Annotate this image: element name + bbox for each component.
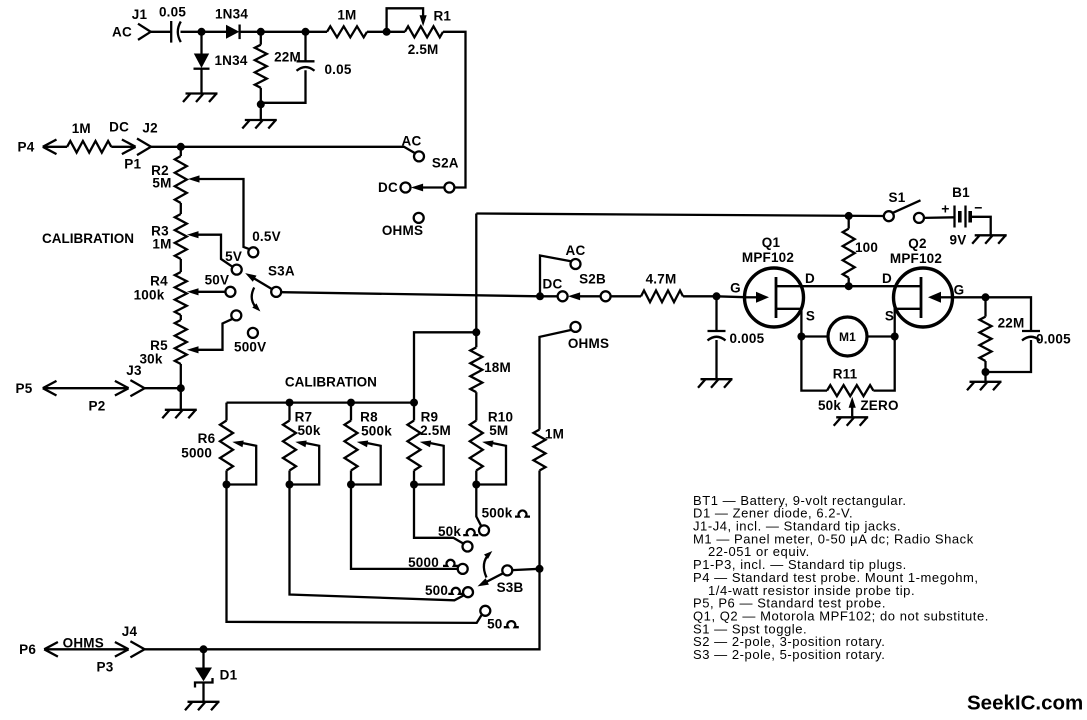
wire (475, 392, 477, 420)
wire (351, 485, 458, 569)
wire (44, 648, 127, 650)
wire (715, 340, 717, 379)
svg-text:P2: P2 (89, 399, 106, 414)
plug P2 (89, 381, 129, 414)
svg-text:D1: D1 (220, 668, 238, 683)
svg-text:R6: R6 (198, 431, 216, 446)
svg-text:G: G (730, 281, 741, 296)
wire (717, 295, 745, 298)
svg-text:9V: 9V (950, 233, 967, 248)
switch S3B 50k contact (438, 524, 478, 552)
wire (200, 69, 202, 94)
svg-text:SeekIC.com: SeekIC.com (967, 692, 1083, 715)
switch S3A 5V contact (225, 249, 242, 275)
resistor R4 100k (134, 272, 187, 315)
ground (185, 702, 220, 711)
wire (151, 31, 172, 33)
node (472, 481, 480, 489)
svg-text:2.5M: 2.5M (408, 42, 439, 57)
svg-text:P6: P6 (19, 642, 36, 657)
node (410, 481, 418, 489)
pot tap R8 (351, 441, 381, 485)
label G Q2 (954, 282, 965, 297)
wire (538, 471, 540, 569)
wire (801, 337, 827, 391)
wire bus (227, 401, 415, 403)
switch S2B OHMS contact (540, 322, 610, 430)
wire (414, 485, 464, 544)
meter M1 (801, 317, 894, 356)
svg-text:D: D (805, 271, 815, 286)
wire (180, 315, 182, 320)
node (797, 333, 805, 341)
label CALIBRATION 2 (285, 374, 377, 389)
svg-text:50k: 50k (438, 524, 461, 539)
switch S2A pole (411, 183, 455, 193)
switch S3A 50V contact (205, 273, 236, 297)
svg-text:P1: P1 (124, 157, 141, 172)
svg-text:100: 100 (855, 240, 878, 255)
wire (240, 31, 261, 33)
svg-text:M1: M1 (839, 330, 856, 344)
svg-text:R8: R8 (360, 409, 378, 424)
wire (261, 70, 306, 103)
wire (475, 214, 477, 348)
resistor 1M probe (67, 121, 111, 153)
svg-text:OHMS: OHMS (568, 336, 609, 351)
ground (967, 382, 1002, 391)
svg-text:50k: 50k (297, 423, 320, 438)
svg-text:+: + (941, 201, 949, 217)
label S2A (432, 156, 459, 171)
svg-text:S3A: S3A (268, 264, 295, 279)
svg-text:1N34: 1N34 (215, 6, 248, 21)
svg-text:S1: S1 (889, 190, 906, 205)
svg-text:0.05: 0.05 (159, 4, 186, 19)
probe P5 (16, 381, 127, 396)
potentiometer R11 50k (818, 367, 873, 413)
svg-text:500V: 500V (234, 340, 266, 355)
svg-text:5000: 5000 (181, 445, 212, 460)
svg-text:R11: R11 (833, 367, 858, 382)
plug P3 (97, 642, 129, 675)
wire (180, 388, 182, 410)
pot tap R3 (187, 231, 233, 267)
resistor R3 1M (151, 214, 187, 259)
svg-text:J1: J1 (132, 7, 148, 22)
svg-text:5M: 5M (152, 176, 171, 191)
node (536, 565, 544, 573)
pot tap R7 (290, 441, 320, 485)
plug P1 (109, 120, 141, 172)
watermark SeekIC.com (967, 692, 1083, 715)
resistor 22M gate (980, 297, 1025, 372)
wire (304, 32, 306, 62)
wire (145, 387, 181, 389)
switch S3A 500V contact (231, 310, 241, 320)
svg-text:0.5V: 0.5V (252, 229, 281, 244)
svg-text:AC: AC (112, 24, 132, 39)
svg-text:5M: 5M (489, 423, 508, 438)
rheostat R7 50k (283, 399, 321, 485)
rotation arrow S3A (252, 288, 261, 312)
node (713, 292, 721, 300)
svg-text:MPF102: MPF102 (742, 250, 794, 265)
pot tap R11 ZERO (849, 397, 899, 418)
pot tap R4 (187, 288, 225, 295)
rotation arrow S3B (484, 551, 492, 578)
svg-text:CALIBRATION: CALIBRATION (285, 374, 377, 389)
wire (227, 485, 482, 623)
jack J3 (126, 363, 144, 396)
wire (180, 259, 182, 272)
label G Q1 (730, 281, 741, 296)
switch S3B pole (478, 565, 540, 595)
jack J4 (122, 624, 145, 657)
node (347, 481, 355, 489)
wire (151, 146, 181, 148)
svg-text:1N34: 1N34 (214, 53, 247, 68)
svg-text:S: S (806, 308, 815, 323)
ground (972, 235, 1007, 244)
node AC input label (112, 24, 132, 39)
svg-text:500k: 500k (482, 505, 513, 520)
svg-text:22M: 22M (998, 316, 1025, 331)
transistor Q2 MPF102 (890, 236, 953, 327)
resistor 1M (327, 7, 367, 37)
jack J2 (137, 120, 158, 155)
node (200, 645, 208, 653)
probe P6 (19, 636, 104, 657)
wire (476, 214, 884, 217)
svg-text:OHMS: OHMS (382, 223, 423, 238)
node (982, 293, 990, 301)
pot tap R10 (476, 441, 506, 485)
svg-text:S: S (885, 308, 894, 323)
capacitor 0.05 filter (297, 61, 352, 77)
svg-text:S3B: S3B (497, 580, 524, 595)
node (257, 28, 265, 36)
svg-text:Q1: Q1 (762, 235, 781, 250)
wire (261, 31, 306, 33)
diode 1N34 series (215, 6, 248, 39)
svg-text:4.7M: 4.7M (646, 271, 677, 286)
capacitor 0.005 right (986, 331, 1072, 372)
svg-text:S2B: S2B (579, 271, 606, 286)
wire (611, 295, 641, 297)
svg-text:J2: J2 (142, 120, 157, 135)
pot tap R5 (187, 319, 233, 354)
switch S2A OHMS contact (382, 213, 424, 238)
svg-text:DC: DC (378, 180, 398, 195)
node (845, 282, 853, 290)
svg-text:5000: 5000 (408, 555, 439, 570)
switch S3A 0.5V contact (248, 229, 280, 257)
node (257, 100, 265, 108)
parts list notes (693, 493, 989, 662)
capacitor 0.05 input (159, 4, 186, 42)
wire Q2 source (895, 309, 921, 337)
svg-text:CALIBRATION: CALIBRATION (42, 231, 134, 246)
wire (953, 296, 986, 298)
diode 1N34 shunt (194, 53, 248, 69)
switch S3B 500k contact (479, 505, 530, 535)
wire (924, 216, 955, 219)
wire (181, 31, 202, 33)
node (982, 368, 990, 376)
svg-text:1M: 1M (72, 121, 91, 136)
node (845, 212, 853, 220)
svg-text:500: 500 (425, 583, 448, 598)
switch S3B 5000 contact (408, 555, 468, 574)
node (472, 328, 480, 336)
rheostat R8 500k (345, 399, 393, 485)
node (177, 384, 185, 392)
rheostat R10 5M (470, 409, 513, 484)
wire (986, 297, 1032, 331)
ground (183, 94, 218, 103)
node (177, 143, 185, 151)
svg-text:0.005: 0.005 (1036, 331, 1071, 346)
potentiometer R1 2.5M (387, 8, 452, 57)
wire (145, 569, 540, 650)
svg-text:Q2: Q2 (908, 236, 926, 251)
zener diode D1 (195, 649, 238, 702)
switch S2A AC contact (402, 134, 424, 162)
svg-text:R4: R4 (150, 274, 168, 289)
pot tap R2 (188, 175, 250, 249)
svg-text:500k: 500k (361, 424, 392, 439)
label D Q1 (805, 271, 815, 286)
wire (260, 104, 262, 120)
svg-text:100k: 100k (134, 288, 165, 303)
svg-text:DC: DC (543, 277, 563, 292)
ground (834, 417, 869, 426)
wire (180, 147, 182, 156)
probe P4 (18, 140, 68, 155)
resistor R5 30k (139, 320, 186, 367)
svg-text:P4: P4 (18, 140, 35, 155)
wire (181, 147, 415, 154)
svg-text:18M: 18M (484, 360, 511, 375)
wire (306, 31, 328, 33)
svg-text:2.5M: 2.5M (420, 423, 451, 438)
pot tap R9 (414, 441, 444, 485)
resistor 4.7M (641, 271, 683, 302)
pot tap R6 (227, 441, 257, 485)
resistor 1M ohms (534, 427, 565, 471)
label S Q1 (806, 308, 815, 323)
svg-text:J4: J4 (122, 624, 138, 639)
node (891, 333, 899, 341)
wire (414, 332, 476, 402)
ground (162, 410, 197, 419)
switch S2B AC contact (540, 243, 585, 296)
wire (476, 485, 481, 527)
resistor 22M (255, 45, 301, 88)
node (198, 28, 206, 36)
svg-text:0.05: 0.05 (324, 62, 351, 77)
wire (290, 485, 465, 601)
resistor 100 (843, 216, 878, 286)
svg-text:1M: 1M (545, 427, 564, 442)
svg-text:1M: 1M (152, 237, 171, 252)
svg-text:R1: R1 (433, 8, 451, 23)
wire (540, 295, 558, 297)
svg-text:G: G (954, 282, 965, 297)
svg-text:AC: AC (402, 134, 422, 149)
switch S3B 500 contact (425, 583, 473, 598)
wire (200, 32, 202, 54)
svg-text:5V: 5V (225, 249, 242, 264)
svg-text:50k: 50k (818, 398, 841, 413)
label D Q2 (882, 271, 892, 286)
svg-text:50: 50 (487, 617, 502, 632)
wire (180, 364, 182, 388)
switch S3A spare contact (234, 328, 266, 355)
switch S2B pole (568, 271, 611, 301)
switch S3A pole (245, 264, 295, 297)
svg-text:AC: AC (566, 243, 586, 258)
svg-text:S2A: S2A (432, 156, 459, 171)
wire drain bus (776, 285, 921, 287)
switch S2A DC contact (378, 180, 410, 195)
rheostat R6 5000 (181, 403, 233, 485)
wire (873, 337, 894, 391)
wire Q1 source (776, 309, 801, 337)
node (302, 28, 310, 36)
wire (683, 295, 717, 297)
svg-text:P3: P3 (97, 660, 114, 675)
node (286, 481, 294, 489)
rheostat R9 2.5M (408, 399, 451, 485)
wire (281, 292, 540, 296)
switch S2B DC contact (543, 277, 568, 302)
resistor R2 5M (151, 156, 187, 203)
node (223, 481, 231, 489)
svg-text:ZERO: ZERO (860, 398, 898, 413)
svg-text:−: − (974, 200, 982, 216)
svg-text:DC: DC (109, 120, 129, 135)
node (383, 28, 391, 36)
svg-text:B1: B1 (952, 185, 970, 200)
wire (443, 32, 466, 188)
svg-text:50V: 50V (205, 273, 230, 288)
svg-text:MPF102: MPF102 (890, 251, 942, 266)
resistor 18M (470, 347, 511, 392)
wire (202, 31, 227, 33)
svg-text:D: D (882, 271, 892, 286)
svg-text:P5: P5 (16, 381, 33, 396)
switch S1 (884, 190, 924, 223)
capacitor 0.005 gate (708, 296, 765, 346)
wire (260, 32, 262, 45)
wire (260, 88, 262, 105)
switch S3B 50 contact (480, 606, 519, 632)
label S Q2 (885, 308, 894, 323)
svg-text:1M: 1M (337, 7, 356, 22)
label CALIBRATION (42, 231, 134, 246)
jack J1 (132, 7, 151, 40)
node (536, 292, 544, 300)
wire (970, 217, 991, 236)
svg-text:0.005: 0.005 (730, 331, 765, 346)
svg-text:S3 — 2-pole, 5-position rotary: S3 — 2-pole, 5-position rotary. (693, 647, 885, 662)
wire (180, 203, 182, 214)
svg-text:J3: J3 (126, 363, 142, 378)
transistor Q1 MPF102 (742, 235, 804, 327)
wire (984, 372, 986, 382)
ground (242, 120, 276, 129)
wire (367, 31, 405, 33)
ground (698, 379, 733, 388)
battery B1 9V (941, 185, 982, 248)
svg-text:30k: 30k (139, 352, 162, 367)
